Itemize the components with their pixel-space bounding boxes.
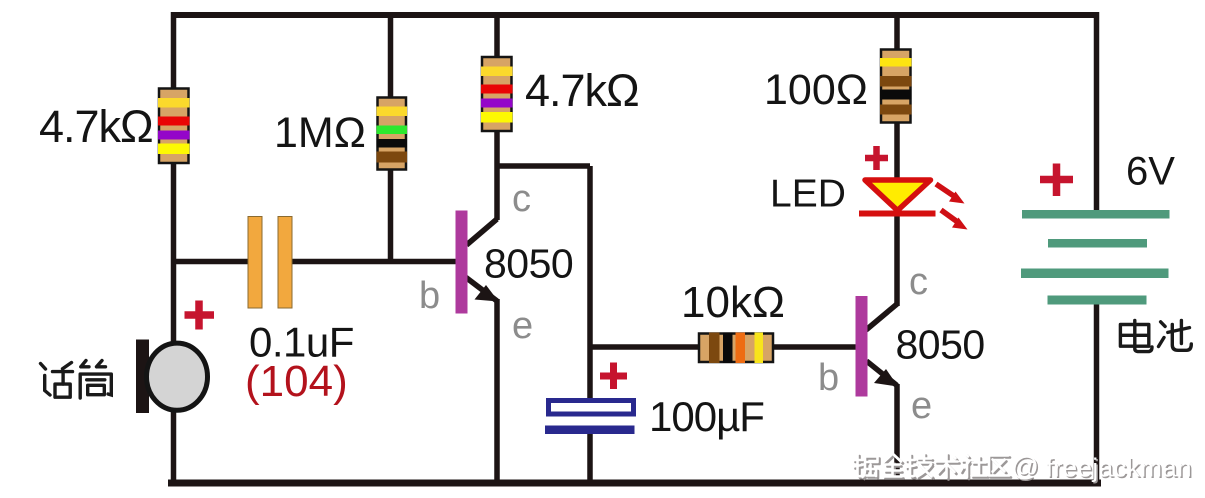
wire Q2 collector diagonal bbox=[866, 304, 897, 330]
wire Q1 collector diagonal bbox=[467, 219, 498, 245]
svg-text:1MΩ: 1MΩ bbox=[274, 109, 366, 157]
wire collector branch Q1 vertical bbox=[494, 12, 500, 220]
arrow Q2 emitter bbox=[874, 369, 898, 387]
svg-text:LED: LED bbox=[770, 173, 846, 216]
wire Q2 collector vertical to LED bbox=[894, 213, 900, 306]
svg-text:8050: 8050 bbox=[896, 322, 985, 368]
transistor Q1 base bar bbox=[456, 211, 468, 314]
arrow Q1 emitter bbox=[475, 285, 499, 302]
svg-text:100µF: 100µF bbox=[649, 393, 764, 440]
resistor R4 100 ohm body bbox=[880, 50, 912, 123]
wire Q2 emitter diagonal bbox=[867, 361, 898, 386]
svg-text:4.7kΩ: 4.7kΩ bbox=[525, 65, 639, 116]
wire node junction horizontal y166 bbox=[497, 163, 590, 169]
capacitor C1 0.1uF plates bbox=[248, 217, 292, 309]
label dianchi (battery chinese) bbox=[1120, 320, 1191, 351]
svg-text:e: e bbox=[911, 385, 932, 427]
wire below 100uF cap vertical bbox=[587, 430, 593, 483]
wire mic-to-base horizontal bbox=[173, 259, 249, 265]
svg-text:10kΩ: 10kΩ bbox=[681, 278, 785, 327]
wire right branch vertical x590 bbox=[587, 166, 593, 401]
wire bottom rail bbox=[168, 480, 1101, 487]
plus sign mic bbox=[185, 301, 215, 330]
wire 1M ohm branch vertical bbox=[388, 12, 394, 261]
wire battery top vertical bbox=[1094, 12, 1100, 214]
wire base branch horizontal y347 bbox=[590, 344, 858, 350]
svg-text:b: b bbox=[419, 275, 440, 317]
LED D1 bbox=[859, 180, 968, 230]
svg-text:100Ω: 100Ω bbox=[764, 66, 868, 114]
svg-text:c: c bbox=[512, 178, 531, 220]
wire cap C1 right lead bbox=[291, 259, 457, 265]
battery BT1 plates bbox=[1021, 210, 1170, 305]
svg-text:freejackman: freejackman bbox=[1046, 453, 1192, 483]
transistor Q2 base bar bbox=[856, 296, 868, 397]
label huatong (microphone chinese) bbox=[41, 361, 112, 399]
svg-text:c: c bbox=[909, 261, 928, 303]
svg-text:6V: 6V bbox=[1126, 150, 1175, 194]
svg-text:8050: 8050 bbox=[484, 241, 573, 287]
wire top rail bbox=[171, 12, 1099, 18]
resistor R1 4.7k body bbox=[158, 89, 190, 164]
microphone MIC1 bbox=[136, 340, 208, 414]
svg-text:@: @ bbox=[1012, 452, 1039, 482]
wire Q1 emitter vertical bbox=[494, 299, 500, 483]
wire left vertical bbox=[171, 12, 177, 483]
capacitor C2 100uF plates bbox=[545, 401, 635, 435]
resistor R3 4.7k body bbox=[481, 57, 513, 131]
svg-text:b: b bbox=[818, 357, 839, 399]
plus sign LED bbox=[865, 146, 888, 170]
wire battery bottom vertical bbox=[1094, 300, 1100, 483]
wire Q2 emitter vertical bbox=[894, 384, 900, 483]
svg-text:4.7kΩ: 4.7kΩ bbox=[39, 101, 153, 152]
plus sign 100uF bbox=[600, 363, 627, 390]
svg-text:e: e bbox=[512, 305, 533, 347]
svg-text:(104): (104) bbox=[245, 357, 348, 406]
plus sign battery bbox=[1040, 164, 1073, 197]
wire Q1 emitter diagonal bbox=[466, 278, 497, 302]
wire LED anode vertical bbox=[894, 12, 900, 182]
resistor R2 1M body bbox=[377, 98, 408, 170]
resistor R5 10k body (horizontal) bbox=[699, 333, 773, 364]
